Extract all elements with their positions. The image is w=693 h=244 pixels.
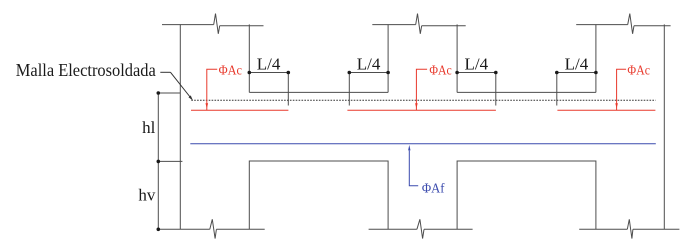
label PhiAf (blue) (408, 145, 445, 196)
svg-text:L/4: L/4 (257, 54, 281, 73)
bottom reinforcement line (blue) (190, 143, 656, 145)
svg-text:L/4: L/4 (464, 54, 488, 73)
label PhiAc #3 (615, 64, 650, 110)
dimension L/4 #1 (248, 54, 291, 105)
slab top line span 1 (249, 91, 388, 93)
label PhiAc #2 (415, 64, 452, 110)
svg-text:ΦAc: ΦAc (627, 64, 650, 79)
svg-text:ΦAc: ΦAc (219, 64, 242, 79)
support B left edge (387, 24, 389, 92)
dimension L/4 #2 (348, 54, 390, 105)
dimension hl / hv vertical line (157, 91, 183, 231)
label Malla Electrosoldada (16, 60, 193, 101)
svg-text:Malla Electrosoldada: Malla Electrosoldada (16, 60, 156, 80)
bottom cut line segment 3 (579, 219, 679, 238)
slab top line span 2 (457, 91, 596, 93)
top reinforcement line 1 (red) (191, 109, 288, 111)
top beam cut line A (162, 14, 264, 34)
svg-text:ΦAf: ΦAf (422, 181, 445, 196)
svg-text:hl: hl (142, 118, 156, 137)
left support edge (tall vertical) (179, 24, 181, 229)
rib block 1 (249, 161, 388, 229)
rib block 2 (457, 161, 596, 229)
svg-text:L/4: L/4 (357, 54, 381, 73)
top beam cut line B (372, 14, 465, 34)
support B right edge (456, 24, 458, 92)
svg-text:hv: hv (138, 186, 156, 205)
svg-text:L/4: L/4 (565, 54, 589, 73)
support C left edge (595, 24, 597, 92)
bottom cut line segment 1 (158, 219, 264, 238)
dimension L/4 #4 (555, 54, 598, 105)
welded mesh dotted line (191, 99, 655, 101)
svg-text:ΦAc: ΦAc (429, 64, 451, 79)
top reinforcement line 3 (red) (557, 109, 655, 111)
top beam cut line C (576, 14, 670, 34)
right support edge (tall vertical) (663, 24, 665, 229)
support A right edge (248, 24, 250, 92)
top reinforcement line 2 (red) (347, 109, 496, 111)
bottom cut line segment 2 (369, 219, 473, 238)
label PhiAc #1 (206, 64, 243, 110)
dimension L/4 #3 (455, 54, 497, 105)
